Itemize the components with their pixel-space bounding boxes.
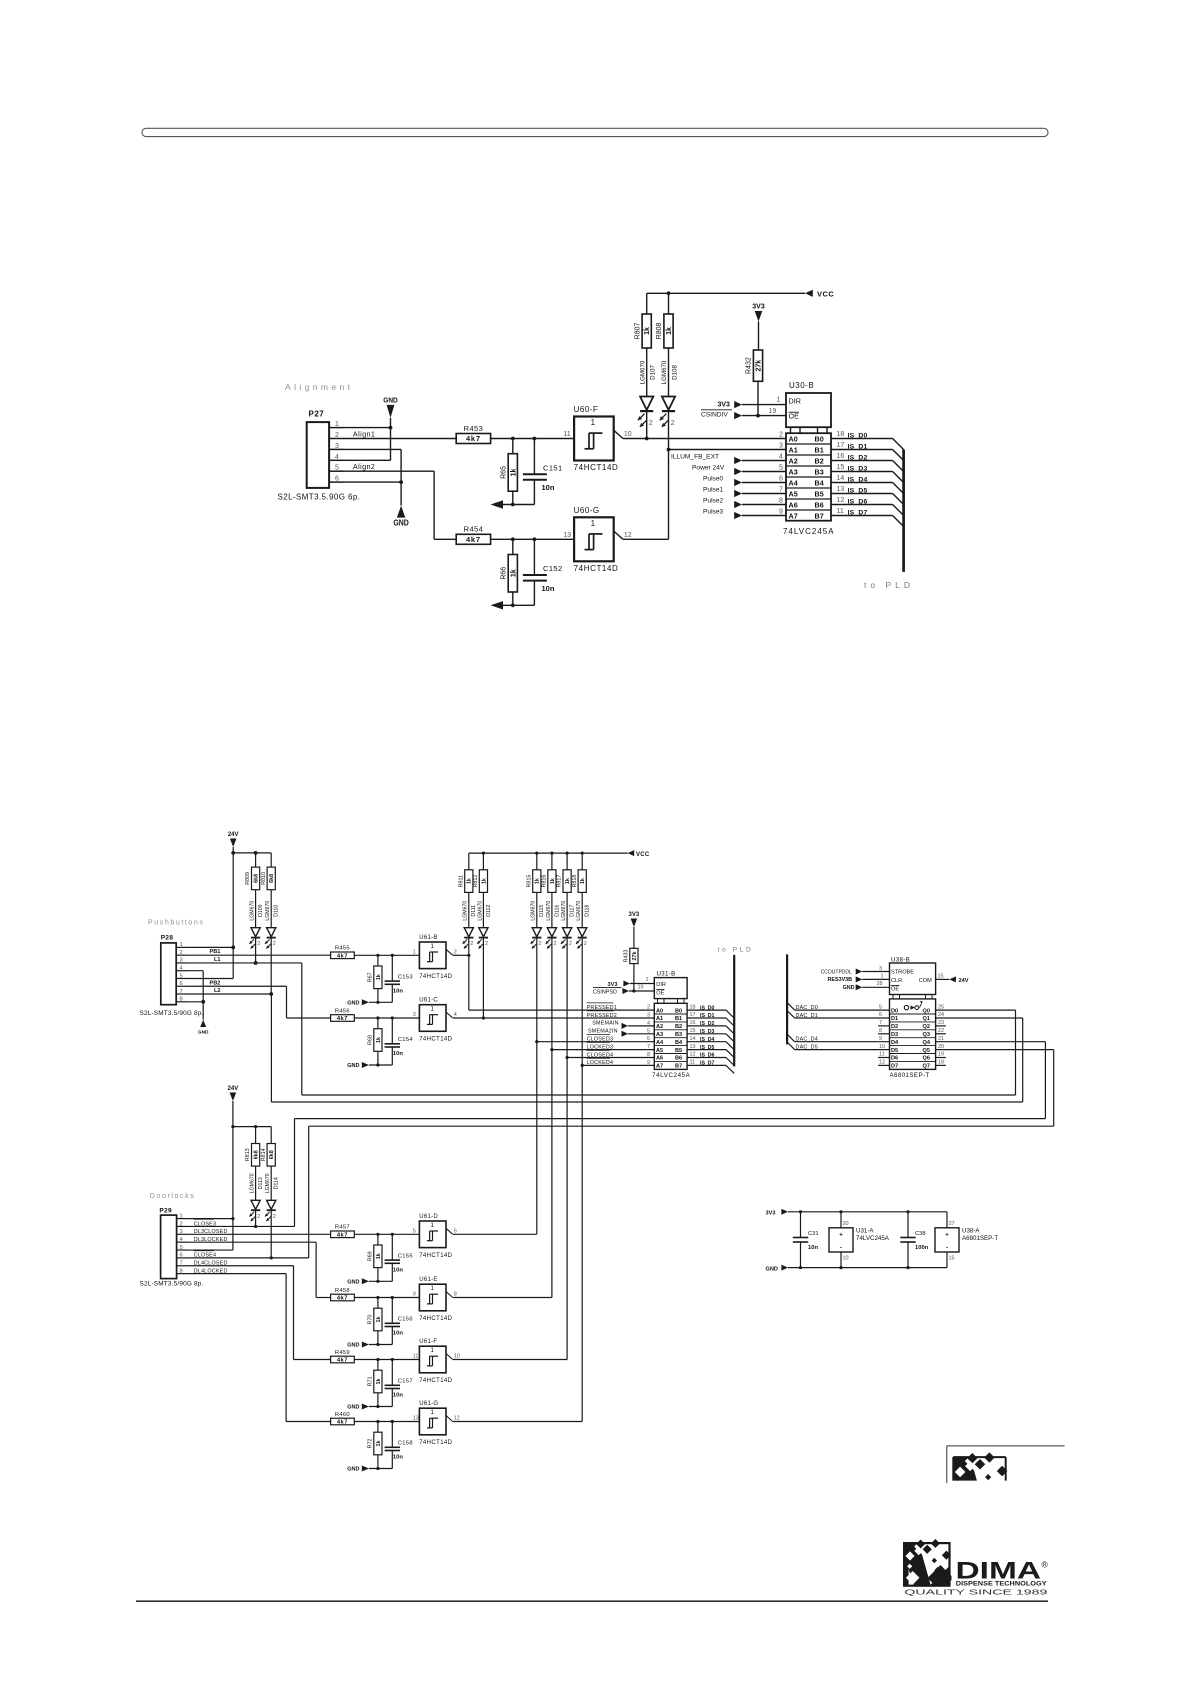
IC U31-B 74LVC245A (652, 971, 691, 1080)
svg-text:LGM670: LGM670 (250, 901, 256, 921)
svg-text:U60-F: U60-F (574, 405, 599, 414)
svg-text:15: 15 (837, 464, 845, 471)
svg-text:LGM670: LGM670 (546, 901, 552, 921)
svg-text:C158: C158 (398, 1441, 413, 1447)
svg-text:8: 8 (180, 997, 183, 1003)
wire PB2 net (187, 980, 331, 1018)
svg-text:24V: 24V (228, 832, 239, 838)
svg-text:10n: 10n (808, 1245, 818, 1251)
svg-text:74LVC245A: 74LVC245A (652, 1072, 691, 1079)
svg-text:B5: B5 (815, 490, 824, 499)
svg-text:DAC_D4: DAC_D4 (796, 1037, 818, 1043)
U30-B A-side input signals (671, 431, 786, 519)
svg-text:D109: D109 (258, 904, 264, 917)
svg-text:17: 17 (837, 442, 845, 449)
svg-text:D4: D4 (891, 1040, 899, 1046)
svg-text:R808: R808 (656, 323, 663, 340)
svg-text:2: 2 (538, 941, 541, 947)
svg-text:1k: 1k (535, 878, 541, 884)
IC U31-A power pins (829, 1212, 890, 1268)
svg-text:1k: 1k (550, 878, 556, 884)
wire U60-F output (623, 437, 786, 441)
svg-text:10: 10 (843, 1256, 849, 1262)
svg-text:6: 6 (454, 1229, 457, 1235)
svg-text:A3: A3 (789, 468, 798, 477)
svg-text:2: 2 (554, 941, 557, 947)
LED D112 (477, 901, 492, 949)
svg-text:LGM670: LGM670 (250, 1173, 256, 1193)
op-amp U61-C schmitt inverter (413, 998, 457, 1043)
svg-text:+: + (839, 1233, 843, 1239)
power VCC arrow pushbuttons (628, 850, 650, 858)
svg-text:C155: C155 (398, 1254, 413, 1260)
svg-text:2: 2 (180, 1221, 183, 1227)
svg-text:6: 6 (180, 981, 183, 987)
svg-text:R812: R812 (473, 875, 479, 888)
svg-text:S2L-SMT3.5/90G 8p.: S2L-SMT3.5/90G 8p. (140, 1281, 204, 1288)
svg-text:DL3CLOSED: DL3CLOSED (194, 1229, 228, 1235)
svg-text:Pushbuttons: Pushbuttons (148, 920, 205, 927)
svg-text:2: 2 (470, 941, 473, 947)
svg-text:Q1: Q1 (923, 1016, 930, 1022)
svg-text:GND: GND (766, 1266, 778, 1272)
svg-text:1: 1 (335, 421, 339, 428)
svg-text:11: 11 (413, 1354, 419, 1360)
svg-text:28: 28 (877, 981, 883, 987)
svg-text:12: 12 (624, 532, 632, 539)
svg-text:4k7: 4k7 (337, 1358, 348, 1364)
svg-text:B0: B0 (675, 1008, 682, 1014)
svg-text:C156: C156 (398, 1317, 413, 1323)
svg-text:C38: C38 (915, 1231, 926, 1237)
resistor R65 (500, 439, 517, 505)
svg-text:CSINPSD: CSINPSD (593, 990, 617, 996)
svg-text:R454: R454 (464, 525, 484, 534)
connector P28 (140, 935, 204, 1018)
wire L1 net (187, 957, 302, 1095)
signal COM to 24V (936, 973, 969, 984)
svg-text:A6801SEP-T: A6801SEP-T (962, 1235, 998, 1242)
wire U61-B output via D111 column (453, 941, 470, 1010)
power 24V above P29 (228, 1086, 239, 1250)
resistor R807 (634, 293, 651, 396)
svg-text:R807: R807 (634, 323, 641, 340)
svg-text:A1: A1 (656, 1016, 663, 1022)
ground GND top of P27 (344, 397, 398, 460)
wire R453 to U60-F (491, 437, 574, 441)
svg-text:C157: C157 (398, 1379, 413, 1385)
LED D110 (265, 901, 280, 996)
op-amp U61-B schmitt inverter (413, 935, 457, 980)
RC filter channel R459/R71/C157 (331, 1350, 420, 1411)
svg-text:B4: B4 (815, 479, 824, 488)
resistor R808 (656, 293, 673, 396)
svg-text:LGM670: LGM670 (463, 901, 469, 921)
LED D113 (249, 1173, 264, 1228)
signal 3V3 to DIR pin1 (718, 397, 787, 409)
svg-text:Align2: Align2 (353, 462, 375, 471)
svg-text:1k: 1k (376, 1037, 382, 1043)
svg-text:U31-A: U31-A (856, 1228, 874, 1235)
wire LOCKED4 net (582, 1064, 654, 1066)
svg-text:R433: R433 (623, 950, 629, 963)
svg-text:5: 5 (180, 973, 183, 979)
svg-text:C31: C31 (808, 1231, 819, 1237)
svg-text:13: 13 (690, 1044, 696, 1050)
svg-text:27k: 27k (632, 951, 638, 960)
svg-text:R809: R809 (245, 872, 251, 885)
svg-text:12: 12 (690, 1052, 696, 1058)
svg-text:R453: R453 (464, 424, 484, 433)
svg-text:Q0: Q0 (923, 1008, 930, 1014)
svg-text:4k7: 4k7 (337, 954, 348, 960)
svg-text:R72: R72 (367, 1439, 373, 1449)
svg-text:D5: D5 (891, 1048, 898, 1054)
op-amp U60-F schmitt inverter (563, 405, 631, 472)
wire U61-G output (453, 1421, 582, 1423)
svg-text:Pulse2: Pulse2 (703, 498, 723, 505)
svg-text:B3: B3 (815, 468, 824, 477)
wire VCC rail pushbuttons (469, 852, 628, 855)
svg-text:1: 1 (413, 950, 416, 956)
svg-text:P27: P27 (309, 410, 325, 419)
svg-text:C151: C151 (543, 463, 563, 472)
svg-text:D113: D113 (258, 1177, 264, 1189)
svg-text:GND: GND (198, 1030, 209, 1036)
resistor R66 (500, 539, 517, 605)
svg-text:15: 15 (938, 973, 944, 979)
partial DIMA mark (953, 1452, 1010, 1512)
svg-text:IS_D6: IS_D6 (700, 1053, 715, 1059)
svg-text:A5: A5 (789, 490, 798, 499)
LED D111 (463, 901, 478, 949)
svg-text:1: 1 (881, 974, 884, 980)
capacitor C38 (900, 1212, 928, 1268)
svg-text:10: 10 (879, 1044, 885, 1050)
wire VCC rail top (647, 291, 805, 295)
signal CCOUTPDDL to STROBE (821, 966, 890, 975)
wire U61-F output (453, 1359, 567, 1361)
signal CSINDIV to OE pin19 (701, 408, 786, 419)
RC filter channel R455/R67/C153 (331, 946, 420, 1007)
svg-text:VCC: VCC (636, 852, 650, 858)
wire Q0 to L1 net (302, 1010, 1016, 1095)
svg-text:R67: R67 (367, 972, 373, 982)
svg-text:1k: 1k (376, 1441, 382, 1447)
svg-text:B2: B2 (815, 457, 824, 466)
svg-text:2: 2 (584, 941, 587, 947)
svg-text:to PLD: to PLD (718, 947, 754, 954)
svg-text:11: 11 (690, 1060, 696, 1066)
frame corner bottom right (947, 1446, 1065, 1483)
svg-text:18: 18 (690, 1004, 696, 1010)
svg-text:A5: A5 (656, 1048, 663, 1054)
svg-text:B1: B1 (815, 446, 824, 455)
svg-text:27k: 27k (755, 360, 762, 372)
svg-text:A2: A2 (656, 1024, 663, 1030)
svg-text:20: 20 (843, 1221, 849, 1227)
svg-text:GND: GND (347, 1343, 359, 1349)
top divider bar (142, 128, 1048, 136)
svg-text:1k: 1k (666, 327, 673, 335)
wire D117 column to U61-F output (566, 941, 569, 1360)
svg-text:6: 6 (879, 1012, 882, 1018)
svg-text:B3: B3 (675, 1032, 682, 1038)
RC filter channel R456/R68/C154 (331, 1008, 420, 1069)
LED D108 (660, 360, 679, 449)
svg-text:25: 25 (938, 1004, 944, 1010)
svg-text:D118: D118 (585, 905, 591, 917)
svg-text:13: 13 (563, 532, 571, 539)
svg-text:2: 2 (335, 432, 339, 439)
bus to PLD middle (718, 947, 754, 1067)
ground GND bottom of P27 (344, 449, 409, 527)
svg-text:A6: A6 (789, 501, 798, 510)
svg-text:B1: B1 (675, 1016, 682, 1022)
signal 3V3 power rail (766, 1209, 948, 1217)
svg-text:11: 11 (879, 1052, 885, 1058)
svg-text:14: 14 (837, 475, 845, 482)
svg-text:U61-F: U61-F (419, 1339, 437, 1345)
svg-text:3: 3 (335, 443, 339, 450)
wire LOCKED3 net (552, 1049, 654, 1051)
svg-text:GND: GND (347, 1280, 359, 1286)
svg-text:A0: A0 (789, 435, 798, 444)
capacitor C152 (523, 539, 563, 605)
svg-text:D7: D7 (891, 1064, 898, 1070)
svg-text:1k: 1k (376, 1379, 382, 1385)
svg-text:2: 2 (779, 431, 783, 438)
svg-text:2: 2 (273, 1214, 276, 1220)
svg-text:SMEMA2IN: SMEMA2IN (588, 1029, 618, 1035)
svg-text:10n: 10n (393, 1051, 403, 1057)
resistor R809 (245, 853, 260, 928)
svg-text:1k: 1k (376, 974, 382, 980)
bus to PLD top (864, 450, 914, 591)
svg-text:R459: R459 (335, 1350, 350, 1356)
wire DL4LOCKED net (187, 1268, 331, 1421)
svg-text:Q7: Q7 (923, 1064, 930, 1070)
svg-text:7: 7 (180, 1261, 183, 1267)
svg-text:D6: D6 (891, 1056, 898, 1062)
RC filter channel R460/R72/C158 (331, 1412, 420, 1473)
svg-text:DL4LOCKED: DL4LOCKED (194, 1268, 228, 1274)
svg-text:B0: B0 (815, 435, 824, 444)
svg-text:U61-G: U61-G (419, 1401, 438, 1407)
svg-text:10: 10 (454, 1354, 460, 1360)
svg-text:D112: D112 (486, 905, 492, 917)
signal GND power rail (766, 1265, 948, 1273)
wire P28 pin8 to GND (187, 1001, 203, 1003)
svg-text:10n: 10n (393, 988, 403, 994)
svg-text:D3: D3 (891, 1032, 898, 1038)
svg-text:R456: R456 (335, 1008, 350, 1014)
svg-text:1k: 1k (565, 878, 571, 884)
svg-text:D115: D115 (539, 905, 545, 917)
svg-text:19: 19 (638, 985, 644, 991)
svg-text:17: 17 (690, 1012, 696, 1018)
svg-text:24V: 24V (959, 978, 969, 984)
svg-text:74LVC245A: 74LVC245A (783, 527, 835, 536)
svg-text:A1: A1 (789, 446, 798, 455)
wire CLOSE3 net (187, 1219, 295, 1227)
svg-text:A6801SEP-T: A6801SEP-T (890, 1072, 930, 1079)
svg-text:11: 11 (563, 431, 570, 438)
svg-text:2: 2 (454, 950, 457, 956)
wire U60-G output to A1 (623, 448, 786, 540)
svg-text:R813: R813 (245, 1148, 251, 1161)
section label Alignment (285, 382, 353, 392)
svg-text:Power 24V: Power 24V (692, 465, 725, 472)
svg-text:10n: 10n (393, 1331, 403, 1337)
svg-text:to PLD: to PLD (864, 580, 914, 590)
svg-text:3V3: 3V3 (608, 982, 618, 988)
svg-text:9: 9 (879, 1036, 882, 1042)
svg-text:1: 1 (180, 942, 183, 948)
svg-text:S2L-SMT3.5.90G 6p.: S2L-SMT3.5.90G 6p. (278, 493, 361, 502)
svg-text:1k: 1k (467, 878, 473, 884)
svg-text:8: 8 (454, 1292, 457, 1298)
svg-text:U31-B: U31-B (657, 971, 676, 978)
svg-text:5: 5 (413, 1229, 416, 1235)
svg-text:2: 2 (569, 941, 572, 947)
resistor R818 (572, 853, 587, 928)
svg-text:16: 16 (837, 453, 845, 460)
svg-text:1: 1 (591, 418, 596, 427)
svg-text:C152: C152 (543, 564, 563, 573)
ground GND below P28 (187, 971, 209, 1036)
svg-text:R457: R457 (335, 1225, 350, 1231)
svg-text:LGM670: LGM670 (477, 901, 483, 921)
svg-text:LGM670: LGM670 (531, 901, 537, 921)
svg-text:14: 14 (690, 1036, 696, 1042)
svg-text:5: 5 (879, 1004, 882, 1010)
svg-text:3V3: 3V3 (718, 401, 731, 408)
svg-text:3: 3 (779, 442, 783, 449)
U31-B B-side wires (687, 1004, 734, 1073)
svg-text:OE: OE (656, 990, 664, 996)
svg-text:IS_D2: IS_D2 (700, 1021, 715, 1027)
svg-text:10n: 10n (393, 1455, 403, 1461)
svg-text:2: 2 (485, 941, 488, 947)
svg-text:Pulse0: Pulse0 (703, 476, 723, 483)
svg-text:Align1: Align1 (353, 429, 375, 438)
svg-text:6k8: 6k8 (253, 1150, 259, 1159)
signal GND to OE (843, 981, 890, 991)
svg-text:74HCT14D: 74HCT14D (419, 1440, 452, 1446)
wire PB1 net (187, 949, 331, 955)
wire Q4 to CLOSE3 net (295, 1042, 1046, 1227)
wire DL3CLOSED net (187, 1229, 331, 1235)
wire L2 net (187, 988, 271, 1102)
svg-text:OE: OE (891, 986, 899, 992)
wire P28 pin5 to 24V (187, 977, 233, 979)
signal CSINPSD to U31-B OE (593, 985, 654, 996)
svg-text:S2L-SMT3.5/90G 8p.: S2L-SMT3.5/90G 8p. (140, 1010, 204, 1017)
svg-text:A3: A3 (656, 1032, 663, 1038)
svg-text:D2: D2 (891, 1024, 898, 1030)
svg-text:-: - (840, 1246, 842, 1252)
svg-text:D116: D116 (554, 905, 560, 917)
power 3V3 above R433 (629, 912, 640, 948)
svg-text:3V3: 3V3 (766, 1211, 776, 1217)
svg-text:4k7: 4k7 (337, 1016, 348, 1022)
svg-text:A2: A2 (789, 457, 798, 466)
svg-text:21: 21 (938, 1036, 944, 1042)
svg-text:LGM670: LGM670 (561, 901, 567, 921)
svg-text:74HCT14D: 74HCT14D (419, 1253, 452, 1259)
svg-text:R818: R818 (572, 875, 578, 888)
svg-text:IS_D4: IS_D4 (700, 1037, 715, 1043)
svg-text:QUALITY SINCE 1989: QUALITY SINCE 1989 (904, 1587, 1047, 1596)
wire P29 pin5 to 24V (187, 1249, 233, 1251)
svg-text:B6: B6 (675, 1056, 682, 1062)
svg-text:R432: R432 (746, 357, 753, 374)
svg-text:A7: A7 (656, 1064, 663, 1070)
LED D117 (561, 901, 576, 949)
svg-text:U60-G: U60-G (574, 506, 600, 515)
svg-text:A4: A4 (656, 1040, 664, 1046)
svg-text:A6: A6 (656, 1056, 663, 1062)
svg-text:1: 1 (180, 1213, 183, 1219)
svg-text:Q4: Q4 (923, 1040, 931, 1046)
LED D116 (546, 901, 561, 949)
ground at R65/C151 (491, 500, 535, 508)
svg-text:9: 9 (779, 508, 783, 515)
svg-text:IS_D2: IS_D2 (848, 455, 868, 462)
svg-text:R71: R71 (367, 1377, 373, 1387)
op-amp U61-F schmitt inverter (413, 1339, 460, 1384)
svg-text:C154: C154 (398, 1037, 414, 1043)
connector P27 (278, 410, 361, 502)
svg-text:GND: GND (347, 1063, 359, 1069)
svg-text:R68: R68 (367, 1035, 373, 1045)
svg-text:R455: R455 (335, 946, 350, 952)
svg-text:D0: D0 (891, 1008, 898, 1014)
IC U38-B A6801SEP-T (890, 957, 936, 1080)
svg-text:Q2: Q2 (923, 1024, 930, 1030)
svg-text:LGM670: LGM670 (576, 901, 582, 921)
RC filter channel R458/R70/C156 (331, 1288, 420, 1349)
svg-text:IS_D6: IS_D6 (848, 499, 868, 506)
wire P29 pin1 to 24V (187, 1218, 233, 1220)
svg-text:1: 1 (777, 397, 781, 404)
svg-text:3: 3 (413, 1012, 416, 1018)
svg-text:R69: R69 (367, 1251, 373, 1261)
svg-text:IS_D5: IS_D5 (700, 1045, 715, 1051)
svg-text:7: 7 (180, 989, 183, 995)
svg-text:R817: R817 (557, 875, 563, 888)
wire P28 pin1 to 24V (187, 946, 233, 948)
svg-text:6: 6 (180, 1253, 183, 1259)
svg-text:20: 20 (938, 1044, 944, 1050)
svg-text:DL3LOCKED: DL3LOCKED (194, 1237, 228, 1243)
svg-text:23: 23 (938, 1020, 944, 1026)
svg-text:STROBE: STROBE (891, 970, 914, 976)
svg-text:R816: R816 (541, 875, 547, 888)
svg-text:DIR: DIR (789, 396, 801, 405)
svg-text:DAC_D1: DAC_D1 (796, 1013, 818, 1019)
svg-text:4k7: 4k7 (337, 1233, 348, 1239)
svg-text:6k8: 6k8 (253, 874, 259, 883)
svg-text:LGM670: LGM670 (265, 1173, 271, 1193)
svg-text:COM: COM (919, 978, 932, 984)
svg-text:4k7: 4k7 (337, 1296, 348, 1302)
U31-B A-side signal labels (587, 1003, 655, 1066)
wire DL4CLOSED net (187, 1261, 331, 1360)
svg-text:OE: OE (789, 411, 800, 420)
svg-text:10n: 10n (393, 1393, 403, 1399)
